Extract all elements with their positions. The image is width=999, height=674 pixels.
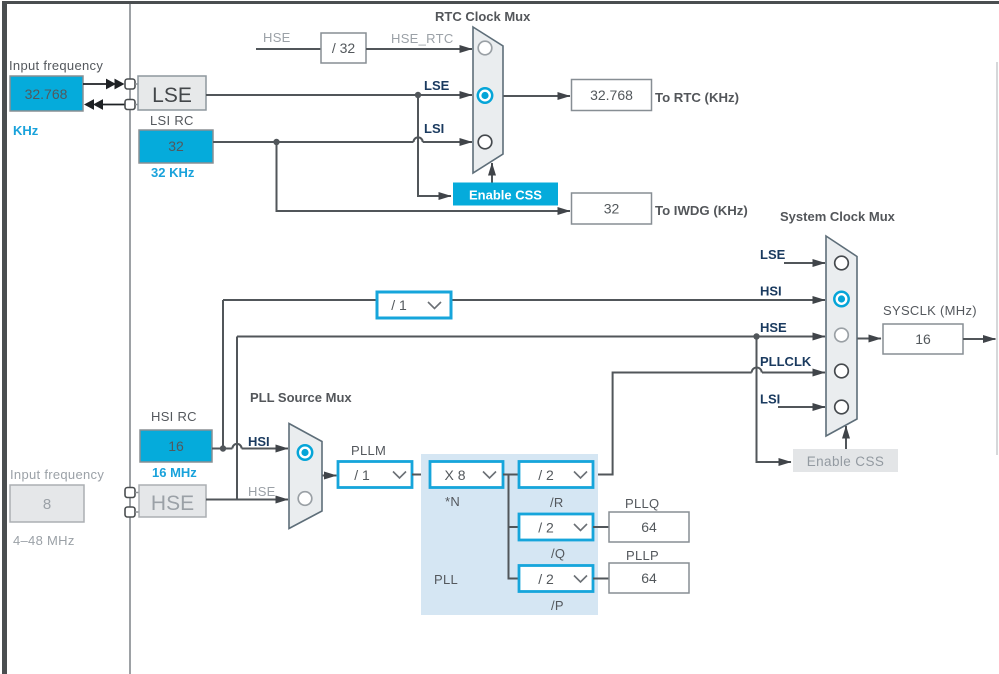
svg-text:LSE: LSE bbox=[760, 247, 786, 262]
svg-text:LSI: LSI bbox=[424, 121, 444, 136]
wire to LSE (right double arrow) bbox=[83, 79, 125, 90]
wire PLLN output fanout bbox=[503, 475, 519, 579]
svg-text:64: 64 bbox=[641, 519, 657, 535]
svg-text:Enable CSS: Enable CSS bbox=[469, 188, 542, 203]
wire HSI RC to PLL mux (with hop over HSE riser) bbox=[212, 444, 288, 449]
wire LSE junction riser to Enable CSS bbox=[418, 95, 451, 196]
HSE port square lower bbox=[125, 507, 135, 517]
frame border left bbox=[2, 1, 7, 674]
LSI RC value box 32 bbox=[139, 130, 213, 163]
HSI RC value box 16 bbox=[140, 430, 212, 462]
tick port to LSE box lower bbox=[135, 104, 138, 106]
svg-text:/R: /R bbox=[550, 495, 564, 510]
IWDG value box 32 bbox=[572, 193, 652, 224]
wire HSE to /32 divider bbox=[256, 48, 321, 50]
tick port to HSE box lower bbox=[135, 511, 139, 513]
wire SYSCLK output to right edge bbox=[963, 338, 996, 340]
wire LSI to RTC mux (with hop over riser) bbox=[213, 137, 472, 142]
right canvas edge line bbox=[996, 62, 998, 455]
tick port to HSE box upper bbox=[135, 492, 139, 494]
svg-text:HSI: HSI bbox=[760, 284, 782, 299]
PLLM divider dropdown /1 bbox=[338, 462, 412, 488]
wire HSI to system mux bbox=[223, 299, 825, 301]
RTC output value box 32.768 bbox=[572, 80, 652, 111]
PLLP value box 64 bbox=[609, 563, 689, 593]
PLLQ divider dropdown /2 bbox=[519, 514, 593, 540]
node LSE junction bbox=[415, 92, 421, 98]
wire from LSE (left double arrow) bbox=[84, 99, 125, 110]
PLL mux radio HSI (selected) bbox=[298, 445, 312, 459]
svg-text:PLLCLK: PLLCLK bbox=[760, 354, 812, 369]
svg-text:LSE: LSE bbox=[152, 84, 192, 107]
svg-text:RTC Clock Mux: RTC Clock Mux bbox=[435, 9, 531, 24]
wire PLLM to PLLN bbox=[412, 474, 430, 476]
node HSI junction bbox=[220, 445, 226, 451]
HSE port square upper bbox=[125, 488, 135, 498]
system mux radio HSI (selected) bbox=[834, 292, 848, 306]
wire HSE to PLL mux bbox=[206, 499, 288, 501]
svg-text:To IWDG (KHz): To IWDG (KHz) bbox=[655, 203, 748, 218]
svg-text:32: 32 bbox=[604, 201, 620, 217]
svg-text:PLL: PLL bbox=[434, 572, 458, 587]
svg-text:Input frequency: Input frequency bbox=[10, 467, 104, 482]
svg-text:*N: *N bbox=[445, 494, 460, 509]
svg-text:/ 32: / 32 bbox=[332, 40, 356, 56]
PLL mux radio HSE (disabled) bbox=[298, 492, 312, 506]
svg-text:32.768: 32.768 bbox=[590, 87, 633, 103]
node HSE junction bbox=[753, 333, 759, 339]
svg-text:HSE: HSE bbox=[760, 320, 787, 335]
PLLQ value box 64 bbox=[609, 512, 689, 542]
wire branch to /Q bbox=[509, 526, 520, 528]
LSE port square upper bbox=[125, 79, 135, 89]
LSE oscillator box bbox=[138, 76, 206, 110]
LSE port square lower bbox=[125, 100, 135, 110]
wire HSE riser to top bbox=[236, 337, 238, 500]
svg-text:LSE: LSE bbox=[424, 78, 450, 93]
system mux radio LSE bbox=[835, 256, 849, 270]
SYSCLK value box 16 bbox=[883, 324, 963, 354]
RTC mux radio LSE (selected) bbox=[478, 88, 492, 102]
svg-text:4–48 MHz: 4–48 MHz bbox=[13, 533, 75, 548]
divider /1 on HSI line bbox=[377, 292, 451, 318]
svg-text:PLLM: PLLM bbox=[351, 443, 386, 458]
system mux radio HSE (disabled) bbox=[835, 328, 849, 342]
wire LSE to RTC mux bbox=[206, 94, 472, 96]
svg-text:/ 1: / 1 bbox=[391, 297, 407, 313]
wire PLLCLK to system mux (with hop) bbox=[593, 368, 825, 475]
wire LSI stub to system mux bbox=[778, 406, 825, 408]
svg-text:/ 1: / 1 bbox=[354, 467, 370, 483]
svg-text:LSI: LSI bbox=[760, 392, 780, 407]
svg-text:PLLP: PLLP bbox=[626, 548, 659, 563]
PLL source mux shape bbox=[289, 424, 322, 529]
svg-text:16: 16 bbox=[915, 331, 931, 347]
svg-text:X 8: X 8 bbox=[444, 467, 465, 483]
svg-text:HSI RC: HSI RC bbox=[151, 409, 197, 424]
svg-text:16: 16 bbox=[168, 438, 184, 454]
svg-text:/ 2: / 2 bbox=[538, 520, 554, 536]
wire system mux output bbox=[858, 338, 882, 340]
svg-text:KHz: KHz bbox=[13, 123, 39, 138]
wire Enable CSS up-arrow into RTC mux bbox=[491, 163, 493, 183]
wire LSI junction to IWDG box bbox=[277, 142, 570, 211]
svg-text:/P: /P bbox=[551, 598, 564, 613]
svg-text:32.768: 32.768 bbox=[25, 86, 68, 102]
system mux radio PLLCLK bbox=[835, 364, 849, 378]
RTC clock mux shape bbox=[473, 27, 503, 173]
wire HSI riser to top bbox=[222, 300, 224, 449]
wire HSE junction riser to Enable CSS (system) bbox=[757, 337, 792, 463]
svg-text:HSE: HSE bbox=[263, 30, 291, 45]
svg-text:Enable CSS: Enable CSS bbox=[807, 454, 885, 469]
frame border top bbox=[2, 1, 999, 4]
wire /Q output bbox=[593, 526, 609, 528]
tick port to LSE box upper bbox=[135, 83, 138, 85]
PLLR divider dropdown /2 bbox=[519, 462, 593, 488]
svg-text:64: 64 bbox=[641, 570, 657, 586]
HSE oscillator box (grayed) bbox=[139, 485, 206, 517]
svg-text:HSE: HSE bbox=[248, 484, 276, 499]
RTC mux radio LSI bbox=[478, 135, 492, 149]
svg-text:16 MHz: 16 MHz bbox=[152, 465, 197, 480]
wire /P output bbox=[593, 578, 609, 580]
wire HSE_RTC to RTC mux bbox=[366, 48, 472, 50]
svg-text:HSE: HSE bbox=[151, 492, 194, 515]
node LSI junction bbox=[273, 139, 279, 145]
system Enable CSS button (disabled) bbox=[793, 449, 898, 472]
input frequency value box 32.768 bbox=[10, 76, 83, 111]
peripheral boundary line (vertical, x=130) bbox=[129, 4, 131, 674]
system mux radio LSI bbox=[835, 400, 849, 414]
wire branch to /R bbox=[509, 474, 520, 476]
svg-text:/Q: /Q bbox=[551, 546, 565, 561]
svg-text:PLLQ: PLLQ bbox=[625, 496, 659, 511]
PLLP divider dropdown /2 bbox=[519, 566, 593, 592]
wire RTC mux output bbox=[504, 95, 571, 97]
wire Enable CSS up-arrow into system mux bbox=[845, 426, 847, 449]
svg-text:SYSCLK (MHz): SYSCLK (MHz) bbox=[883, 303, 977, 318]
svg-text:LSI RC: LSI RC bbox=[150, 113, 194, 128]
wire PLL mux output to PLLM bbox=[323, 475, 337, 477]
PLLN multiplier dropdown X8 bbox=[430, 462, 503, 488]
svg-text:Input frequency: Input frequency bbox=[9, 58, 103, 73]
wire LSE stub to system mux bbox=[784, 262, 825, 264]
PLL block background bbox=[421, 454, 598, 615]
svg-text:HSI: HSI bbox=[248, 434, 270, 449]
svg-text:32 KHz: 32 KHz bbox=[151, 165, 195, 180]
svg-text:8: 8 bbox=[43, 496, 51, 513]
svg-text:HSE_RTC: HSE_RTC bbox=[391, 31, 454, 46]
svg-text:/ 2: / 2 bbox=[538, 467, 554, 483]
system clock mux shape bbox=[826, 236, 857, 436]
RTC mux radio HSE_RTC (disabled) bbox=[478, 41, 492, 55]
RTC Enable CSS button (active) bbox=[453, 183, 558, 206]
HSE input frequency box 8 (grayed) bbox=[10, 485, 84, 522]
svg-text:/ 2: / 2 bbox=[538, 571, 554, 587]
RTC HSE divider /32 box bbox=[321, 33, 366, 63]
svg-text:32: 32 bbox=[168, 138, 184, 154]
svg-text:To RTC (KHz): To RTC (KHz) bbox=[655, 90, 739, 105]
svg-text:System Clock Mux: System Clock Mux bbox=[780, 209, 896, 224]
svg-text:PLL Source Mux: PLL Source Mux bbox=[250, 390, 352, 405]
wire HSE to system mux bbox=[237, 336, 825, 338]
